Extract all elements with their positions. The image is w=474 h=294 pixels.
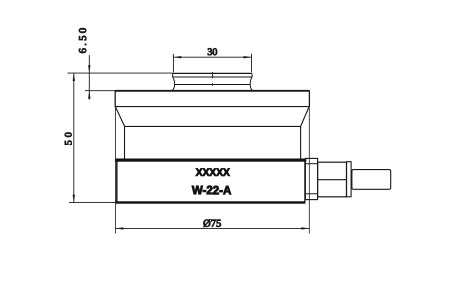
connector end cap	[347, 162, 352, 197]
label text XXXXX	[196, 167, 230, 179]
svg-text:XXXXX: XXXXX	[196, 167, 230, 179]
dimension 50 top arrow	[73, 73, 75, 81]
left taper edge	[116, 107, 125, 126]
top plate left edge	[114, 91, 116, 107]
cable	[352, 170, 391, 190]
dimension 6.50 text	[78, 28, 89, 54]
connector flange lower chamfer line	[305, 193, 317, 195]
load button left side profile	[172, 77, 175, 91]
dimension 50 text	[63, 132, 74, 145]
extension line top (boss top level, y=73)	[68, 72, 174, 74]
label ring right edge	[304, 161, 306, 201]
top plate right edge	[308, 91, 310, 107]
diameter 75 left arrow	[115, 227, 123, 229]
svg-text:6.50: 6.50	[78, 28, 89, 54]
diameter 75 left extension line	[114, 108, 116, 234]
dimension 30 left arrow	[173, 56, 181, 58]
connector flange	[305, 158, 317, 199]
load button right side profile	[250, 77, 253, 91]
thick weld band	[115, 159, 306, 162]
dimension 6.50 lower arrow (points up, tip at y=90.7)	[88, 91, 90, 99]
load button top line	[173, 72, 252, 74]
dimension 6.50 vertical line	[88, 55, 90, 100]
label ring left edge	[116, 161, 118, 201]
svg-text:Ø75: Ø75	[203, 219, 221, 230]
load button lip left edge	[172, 73, 174, 77]
dimension 30 right arrow	[244, 56, 252, 58]
load button lip line	[173, 76, 253, 78]
connector body	[318, 162, 347, 197]
dimension 50 bottom arrow	[73, 195, 75, 203]
load button lip right edge	[251, 73, 253, 77]
dimension 6.50 upper arrow (points down, tip at y=73)	[88, 65, 90, 73]
load button center mark upper	[212, 72, 214, 78]
svg-text:W-22-A: W-22-A	[192, 183, 232, 197]
dimension 30 line	[173, 56, 251, 58]
shoulder line	[125, 125, 301, 127]
extension line for 6.50 (plate top level, thin part)	[85, 90, 116, 92]
load button center mark lower	[212, 83, 214, 86]
dimension 30 right extension line	[251, 54, 253, 72]
dimension 50 vertical line	[73, 73, 75, 203]
dimension 30 left extension line	[172, 54, 174, 72]
top plate top edge (thick)	[115, 90, 310, 92]
right taper edge	[301, 107, 309, 126]
diameter 75 right extension line	[308, 108, 310, 234]
connector flange upper chamfer line	[305, 163, 317, 165]
svg-text:50: 50	[63, 132, 74, 145]
body bottom edge (thick)	[116, 201, 306, 203]
mid section right edge	[300, 126, 302, 158]
top plate bottom edge	[115, 106, 309, 108]
connector body middle line	[318, 179, 347, 181]
diameter 75 right arrow	[301, 227, 309, 229]
diameter 75 text	[203, 219, 221, 230]
mid section left edge	[124, 126, 126, 158]
dimension 30 text	[207, 47, 217, 58]
load button neck line	[175, 84, 250, 86]
svg-text:30: 30	[207, 47, 217, 58]
diameter 75 dimension line	[115, 227, 309, 229]
label text W-22-A	[192, 183, 232, 197]
extension line bottom (body bottom level, y=202.6)	[69, 202, 116, 204]
